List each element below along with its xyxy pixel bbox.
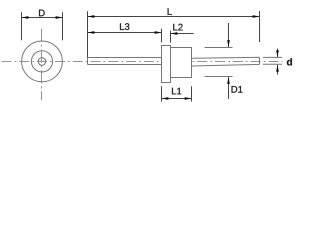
label D1	[232, 86, 243, 93]
middle circle	[31, 51, 52, 72]
label L1	[172, 88, 181, 95]
d dimension line bottom segment (arrow up to lead bottom)	[277, 65, 279, 75]
right lead (wire, slightly skewed as in scan)	[192, 57, 260, 66]
L3 dimension line	[88, 32, 162, 34]
horizontal centerline (red dash-dot through both views)	[2, 61, 283, 63]
L1 dimension line	[162, 98, 192, 100]
L dimension line	[88, 16, 260, 18]
label L2	[173, 24, 182, 31]
D1 dimension line top segment (arrow down)	[228, 23, 230, 47]
D dimension extension lines	[21, 12, 23, 40]
D1 bottom extension line (body bottom extended)	[205, 76, 233, 78]
body	[171, 48, 192, 78]
L2 dimension line (left arrow only)	[171, 33, 194, 35]
label L	[168, 8, 172, 15]
inner circle (lead)	[38, 58, 46, 66]
label L3	[120, 23, 129, 30]
L1 extension lines	[161, 86, 163, 101]
d dimension line top segment (arrow down to lead top)	[277, 49, 279, 58]
D1 top extension line (body top extended)	[205, 47, 233, 49]
flange (washer)	[162, 46, 171, 83]
lead end piece after break	[263, 57, 282, 64]
L / L3 left extension line (lead end edge extended up)	[87, 11, 89, 57]
L right extension line	[259, 11, 261, 42]
L3 right extension line	[161, 29, 163, 43]
vertical centerline of front view	[41, 29, 43, 101]
D1 dimension line bottom segment (arrow up)	[228, 77, 230, 99]
L2 left extension line	[170, 31, 172, 43]
left lead (wire)	[88, 58, 162, 65]
D dimension line	[22, 17, 63, 19]
label D	[39, 10, 45, 17]
outer circle (flange face, dia D)	[22, 41, 63, 82]
label d	[287, 58, 292, 65]
